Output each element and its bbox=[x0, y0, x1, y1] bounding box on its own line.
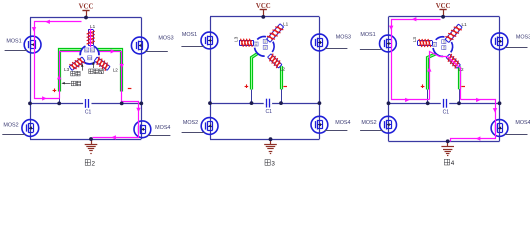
transistor MOS1 fig2 bbox=[5, 36, 41, 53]
svg-text:C1: C1 bbox=[85, 109, 92, 115]
commutator segment R3 bbox=[254, 42, 258, 46]
polarity mark minus bbox=[283, 86, 287, 88]
capacitor C1 bbox=[264, 99, 272, 115]
motor lead right (green) fig4 bbox=[458, 66, 461, 89]
wire motor left terminal fig2 bbox=[59, 91, 61, 103]
commutator segment R1 bbox=[85, 48, 89, 52]
motor rotor circle fig4 bbox=[433, 37, 453, 57]
inductor winding L2 fig2 bbox=[94, 57, 118, 73]
svg-text:VCC: VCC bbox=[436, 3, 451, 10]
commutator segment R2 bbox=[263, 45, 267, 49]
label MOS2 fig4 bbox=[361, 120, 376, 126]
svg-text:MOS4: MOS4 bbox=[515, 120, 530, 126]
polarity mark plus bbox=[245, 84, 249, 88]
svg-text:L3: L3 bbox=[233, 36, 238, 42]
VCC power symbol bbox=[79, 4, 94, 18]
current path (to MOS4 and ground) fig2 bbox=[93, 102, 141, 140]
label MOS3 fig4 bbox=[516, 35, 530, 41]
svg-text:L2: L2 bbox=[280, 67, 286, 72]
commutator segment R1 bbox=[263, 39, 267, 43]
inductor winding L3 fig4 bbox=[412, 37, 433, 47]
node ground junction fig4 bbox=[446, 139, 450, 143]
svg-text:MOS2: MOS2 bbox=[361, 120, 376, 126]
node motor right fig3 bbox=[279, 101, 283, 105]
wire right branch fig2 bbox=[141, 18, 143, 140]
current path (up through motor winding L2) fig4 bbox=[427, 52, 460, 100]
label MOS2 fig3 bbox=[183, 120, 198, 126]
inductor winding L2 fig4 bbox=[446, 54, 464, 72]
transistor MOS4 fig3 bbox=[311, 116, 347, 133]
wire motor left terminal fig4 bbox=[427, 89, 429, 104]
svg-text:L1: L1 bbox=[283, 22, 289, 27]
svg-text:2: 2 bbox=[92, 160, 96, 167]
wire motor right terminal fig2 bbox=[121, 91, 123, 103]
transistor MOS3 fig3 bbox=[311, 34, 347, 51]
annotation motor label fig2 bbox=[61, 81, 80, 86]
VCC power symbol bbox=[256, 3, 271, 17]
VCC power symbol bbox=[436, 3, 451, 17]
label MOS4 fig3 bbox=[335, 120, 350, 126]
svg-text:3: 3 bbox=[271, 160, 275, 167]
svg-text:R2: R2 bbox=[91, 48, 95, 52]
node mid-right fig3 bbox=[318, 101, 322, 105]
svg-text:MOS3: MOS3 bbox=[158, 36, 173, 42]
svg-text:R3: R3 bbox=[254, 42, 258, 46]
svg-text:MOS4: MOS4 bbox=[155, 125, 170, 131]
node motor right fig2 bbox=[120, 102, 124, 106]
svg-text:R2: R2 bbox=[442, 45, 446, 49]
node mid-left fig3 bbox=[208, 101, 212, 105]
wire bottom rail fig4 bbox=[389, 141, 500, 143]
svg-text:L2: L2 bbox=[113, 67, 119, 72]
svg-text:R1: R1 bbox=[85, 48, 89, 52]
svg-text:C1: C1 bbox=[265, 109, 272, 115]
motor housing (green box) fig2 bbox=[60, 50, 122, 92]
label MOS4 fig4 bbox=[515, 120, 530, 126]
svg-text:MOS1: MOS1 bbox=[360, 32, 375, 38]
label MOS2 fig2 bbox=[3, 123, 18, 129]
transistor MOS3 fig4 bbox=[491, 33, 527, 50]
node mid-right fig4 bbox=[498, 101, 502, 105]
wire bottom rail fig2 bbox=[30, 139, 141, 141]
capacitor C1 bbox=[83, 99, 91, 115]
wire motor left terminal fig3 bbox=[251, 89, 253, 103]
svg-text:R2: R2 bbox=[263, 45, 267, 49]
wire middle rail fig4 bbox=[389, 103, 500, 105]
annotation commutator label fig2 bbox=[89, 61, 104, 73]
wire motor right terminal fig3 bbox=[281, 89, 283, 103]
label MOS1 fig4 bbox=[360, 32, 375, 38]
wire left branch fig2 bbox=[30, 18, 32, 140]
svg-text:MOS1: MOS1 bbox=[6, 39, 21, 45]
inductor winding L3 fig3 bbox=[233, 36, 253, 46]
commutator segment R3 bbox=[432, 42, 436, 46]
transistor MOS2 fig3 bbox=[182, 118, 218, 135]
polarity mark plus bbox=[53, 89, 57, 93]
svg-text:L3: L3 bbox=[64, 67, 70, 72]
polarity mark plus bbox=[421, 84, 425, 88]
node mid-left fig4 bbox=[387, 101, 391, 105]
svg-text:4: 4 bbox=[451, 160, 455, 167]
commutator segment R2 bbox=[442, 45, 446, 49]
node motor left fig2 bbox=[57, 102, 61, 106]
wire middle rail fig3 bbox=[210, 103, 319, 105]
node VCC junction fig2 bbox=[84, 16, 88, 20]
svg-text:VCC: VCC bbox=[79, 4, 94, 11]
transistor MOS4 fig4 bbox=[491, 120, 527, 137]
motor rotor circle fig3 bbox=[254, 37, 274, 57]
inductor winding L1 fig4 bbox=[445, 22, 467, 42]
node motor right fig4 bbox=[457, 101, 461, 105]
transistor MOS1 fig3 bbox=[181, 32, 217, 49]
transistor MOS2 fig4 bbox=[360, 116, 396, 133]
inductor winding L1 fig2 bbox=[87, 24, 96, 47]
node mid-left fig2 bbox=[28, 102, 32, 106]
motor lead left (green) fig3 bbox=[252, 54, 258, 90]
node mid-right fig2 bbox=[139, 102, 143, 106]
inductor winding L1 fig3 bbox=[267, 22, 289, 42]
node motor left fig3 bbox=[250, 101, 254, 105]
transistor MOS4 fig2 bbox=[134, 121, 170, 138]
wire right branch fig4 bbox=[499, 17, 501, 142]
label MOS3 fig3 bbox=[336, 35, 351, 41]
figure caption bbox=[85, 160, 95, 168]
node VCC junction fig3 bbox=[261, 15, 265, 19]
svg-text:MOS2: MOS2 bbox=[3, 123, 18, 129]
wire left branch fig4 bbox=[388, 17, 390, 142]
annotation coil label fig2 bbox=[71, 63, 84, 76]
node VCC junction fig4 bbox=[441, 15, 445, 19]
wire left branch fig3 bbox=[210, 17, 212, 139]
ground symbol bbox=[441, 141, 454, 155]
wire motor right terminal fig4 bbox=[459, 89, 461, 104]
motor lead left (green) fig4 bbox=[428, 54, 437, 90]
label MOS1 fig3 bbox=[182, 32, 197, 38]
ground symbol bbox=[264, 139, 277, 153]
polarity mark minus bbox=[128, 88, 132, 90]
wire top rail fig4 bbox=[389, 16, 500, 18]
svg-text:C1: C1 bbox=[443, 109, 450, 115]
svg-text:L1: L1 bbox=[90, 24, 96, 29]
transistor MOS1 fig4 bbox=[360, 35, 396, 52]
svg-text:MOS3: MOS3 bbox=[516, 35, 530, 41]
svg-text:L3: L3 bbox=[412, 37, 417, 43]
current path (to MOS4 and ground) fig4 bbox=[451, 98, 498, 142]
transistor MOS3 fig2 bbox=[131, 37, 167, 54]
wire middle rail fig2 bbox=[30, 103, 141, 105]
label MOS1 fig2 bbox=[6, 39, 21, 45]
svg-text:VCC: VCC bbox=[256, 3, 271, 10]
transistor MOS2 fig2 bbox=[2, 120, 38, 137]
wire top rail fig2 bbox=[30, 17, 141, 19]
figure caption bbox=[444, 159, 454, 167]
svg-text:MOS1: MOS1 bbox=[182, 32, 197, 38]
label MOS3 fig2 bbox=[158, 36, 173, 42]
node ground junction fig2 bbox=[89, 137, 93, 141]
inductor winding L3 fig2 bbox=[64, 57, 85, 72]
ground symbol bbox=[85, 139, 98, 154]
current path (through motor box) fig2 bbox=[57, 49, 124, 101]
node ground junction fig3 bbox=[269, 137, 273, 141]
node motor left fig4 bbox=[426, 101, 430, 105]
figure caption bbox=[265, 160, 275, 168]
svg-text:R3: R3 bbox=[433, 42, 437, 46]
commutator segment R2 bbox=[90, 48, 94, 52]
capacitor C1 bbox=[441, 99, 449, 115]
wire right branch fig3 bbox=[319, 17, 321, 139]
svg-text:L1: L1 bbox=[462, 22, 468, 27]
motor rotor circle fig2 bbox=[80, 45, 99, 64]
wire top rail fig3 bbox=[210, 16, 319, 18]
polarity mark minus bbox=[461, 86, 465, 88]
svg-text:MOS4: MOS4 bbox=[335, 120, 350, 126]
svg-text:R3: R3 bbox=[88, 56, 92, 60]
current path (top and left branch) fig4 bbox=[389, 17, 441, 102]
commutator segment R1 bbox=[442, 39, 446, 43]
commutator segment R3 bbox=[88, 56, 92, 60]
current path (top, from VCC left and down through MOS1) fig2 bbox=[32, 20, 82, 101]
wire bottom rail fig3 bbox=[210, 139, 319, 141]
svg-text:MOS2: MOS2 bbox=[183, 120, 198, 126]
svg-text:MOS3: MOS3 bbox=[336, 35, 351, 41]
inductor winding L2 fig3 bbox=[268, 54, 286, 72]
motor lead right (green) fig3 bbox=[280, 66, 283, 89]
label MOS4 fig2 bbox=[155, 125, 170, 131]
